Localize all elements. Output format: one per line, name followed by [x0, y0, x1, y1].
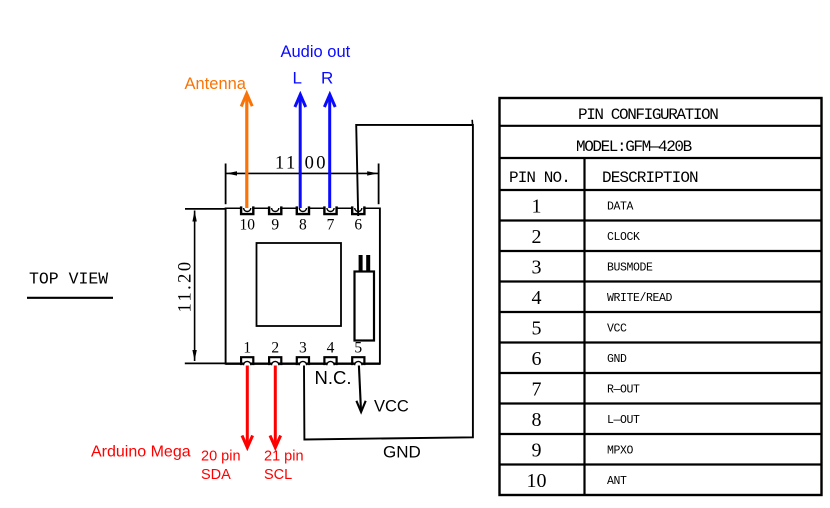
svg-text:8: 8: [299, 217, 307, 234]
svg-text:SCL: SCL: [264, 467, 292, 483]
table row 9 MPXO: [532, 440, 634, 462]
pin 9 pad: [269, 206, 281, 214]
svg-text:5: 5: [354, 340, 362, 357]
svg-text:MODEL:GFM—420B: MODEL:GFM—420B: [576, 138, 692, 156]
chip U1 body outline: [226, 208, 381, 365]
svg-text:5: 5: [532, 318, 542, 340]
table row 4 WRITE/READ: [532, 287, 673, 309]
dimension 11.20 line: [192, 211, 196, 362]
20 pin SDA label: [201, 449, 241, 483]
antenna arrow (pin 10 net): [241, 94, 252, 209]
svg-text:VCC: VCC: [607, 323, 627, 336]
svg-text:TOP VIEW: TOP VIEW: [29, 270, 108, 289]
svg-text:WRITE/READ: WRITE/READ: [607, 292, 673, 305]
table row 1 DATA: [532, 196, 634, 218]
svg-text:4: 4: [532, 287, 542, 309]
SDA arrow (pin 1 net): [242, 366, 253, 448]
svg-text:GND: GND: [383, 443, 421, 462]
svg-text:20 pin: 20 pin: [201, 449, 241, 465]
svg-text:10: 10: [527, 470, 547, 492]
SCL arrow (pin 2 net): [270, 366, 281, 448]
svg-text:N.C.: N.C.: [315, 367, 352, 388]
table row 10 ANT: [527, 470, 628, 492]
pin 7 pad: [324, 206, 336, 214]
svg-text:BUSMODE: BUSMODE: [607, 262, 653, 275]
svg-text:Antenna: Antenna: [185, 75, 247, 93]
title TOP VIEW: [27, 270, 113, 298]
dimension 11.20 extension line top: [185, 208, 226, 210]
table row 8 L-OUT: [532, 409, 641, 431]
table row 2 CLOCK: [532, 226, 641, 248]
svg-text:2: 2: [271, 340, 279, 357]
pin 1 pad: [241, 357, 253, 365]
dimension 11.00 extension line left: [225, 164, 227, 205]
pin 3 pad: [297, 357, 309, 365]
svg-text:11.20: 11.20: [176, 260, 196, 313]
svg-text:1: 1: [243, 340, 251, 357]
table row 6 GND: [532, 348, 628, 370]
table row 5 VCC: [532, 318, 628, 340]
svg-text:SDA: SDA: [201, 467, 231, 483]
svg-text:3: 3: [299, 340, 307, 357]
GND wire from pin 6 around to pin 3: [304, 125, 473, 440]
VCC arrow from pin 5: [356, 366, 365, 413]
svg-text:L—OUT: L—OUT: [607, 414, 640, 427]
audio R arrow (pin 7 net): [324, 95, 335, 209]
svg-text:Audio out: Audio out: [281, 43, 351, 61]
svg-text:9: 9: [532, 440, 542, 462]
svg-text:8: 8: [532, 409, 542, 431]
chip inner square (shield): [257, 243, 342, 326]
svg-text:3: 3: [532, 257, 542, 279]
svg-text:4: 4: [327, 340, 335, 357]
svg-text:7: 7: [532, 379, 542, 401]
pin configuration table frame: [500, 98, 822, 495]
dimension 11.00 extension line right: [378, 164, 380, 205]
pin 2 pad: [269, 357, 281, 365]
table row 7 R-OUT: [532, 379, 641, 401]
svg-text:2: 2: [532, 226, 542, 248]
svg-text:DATA: DATA: [607, 201, 634, 214]
crystal Y1 body: [355, 272, 375, 341]
svg-text:6: 6: [532, 348, 542, 370]
svg-text:ANT: ANT: [607, 475, 627, 488]
svg-text:CLOCK: CLOCK: [607, 231, 640, 244]
pin 8 pad: [297, 206, 309, 214]
dimension 11.20 extension line bottom: [185, 362, 226, 364]
crystal Y1 leg left: [359, 255, 363, 272]
svg-text:Arduino Mega: Arduino Mega: [91, 444, 191, 461]
svg-text:1: 1: [532, 196, 542, 218]
svg-text:PIN CONFIGURATION: PIN CONFIGURATION: [578, 106, 718, 124]
svg-text:R: R: [321, 69, 333, 88]
svg-text:7: 7: [327, 217, 335, 234]
pin 5 pad: [352, 357, 364, 365]
svg-text:10: 10: [239, 217, 255, 234]
svg-text:6: 6: [354, 217, 362, 234]
svg-text:9: 9: [271, 217, 279, 234]
pin 10 pad: [241, 206, 253, 214]
dimension 11.00 line: [226, 171, 378, 175]
audio L arrow (pin 8 net): [295, 95, 306, 209]
svg-text:GND: GND: [607, 353, 627, 366]
svg-text:DESCRIPTION: DESCRIPTION: [602, 169, 698, 187]
svg-text:L: L: [293, 69, 302, 88]
pin 6 pad: [352, 206, 364, 214]
svg-text:MPXO: MPXO: [607, 445, 634, 458]
21 pin SCL label: [264, 449, 304, 483]
table row 3 BUSMODE: [532, 257, 654, 279]
crystal Y1 leg right: [366, 255, 370, 272]
svg-text:PIN NO.: PIN NO.: [509, 169, 570, 187]
pin 4 pad: [324, 357, 336, 365]
svg-text:21 pin: 21 pin: [264, 449, 304, 465]
wire corner overshoot: [471, 120, 473, 126]
svg-text:R—OUT: R—OUT: [607, 384, 640, 397]
svg-text:VCC: VCC: [374, 398, 409, 416]
